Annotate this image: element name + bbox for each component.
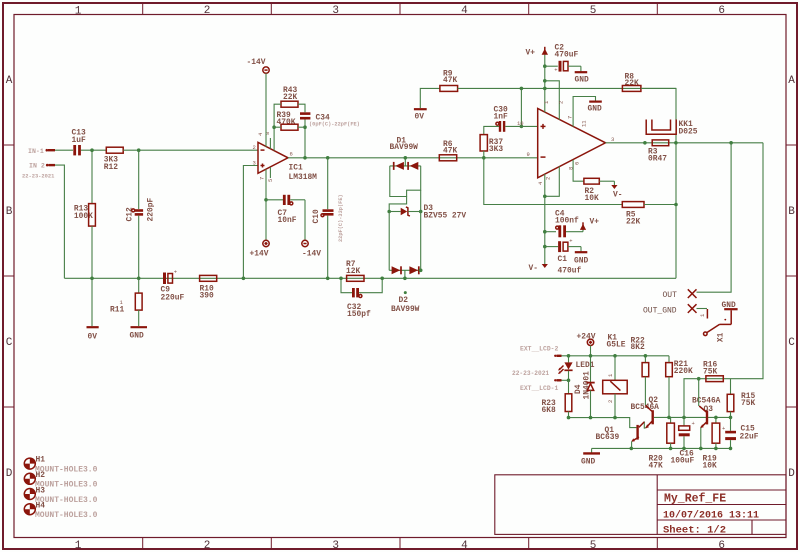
- svg-text:2: 2: [204, 540, 211, 552]
- svg-text:100nf: 100nf: [555, 216, 579, 225]
- frame column numbers bottom: [75, 540, 725, 552]
- frame row tick right B/C: [786, 275, 797, 277]
- svg-text:0V: 0V: [88, 333, 98, 342]
- frame column numbers top: [75, 5, 725, 18]
- node junction pin2 jog: [543, 79, 547, 83]
- pin IN 2: [29, 163, 55, 170]
- mount hole H1: [24, 456, 97, 475]
- wire D3 right leg: [420, 190, 422, 211]
- svg-text:8K2: 8K2: [631, 343, 645, 352]
- svg-text:9: 9: [527, 151, 530, 158]
- svg-text:3: 3: [332, 540, 339, 552]
- svg-text:2: 2: [204, 5, 211, 17]
- frame column tick top 3/4: [399, 3, 401, 15]
- ground GND X1: [722, 301, 738, 325]
- resistor R23 6K8: [542, 380, 572, 417]
- capacitor C7 10nF: [266, 195, 305, 225]
- wire feedback line R5: [484, 158, 623, 205]
- svg-text:0R47: 0R47: [648, 155, 667, 164]
- frame row tick left A/B: [3, 144, 14, 146]
- capacitor C12 220pF: [126, 150, 156, 278]
- node junction D2 right: [419, 269, 423, 273]
- svg-text:10K: 10K: [585, 194, 599, 203]
- wire R37 top to C30: [484, 126, 499, 134]
- wire C7 to -14V bottom: [304, 200, 306, 241]
- svg-text:+: +: [569, 238, 572, 245]
- wire pin4 stub bottom: [544, 174, 546, 196]
- node junction rail 24V: [589, 354, 593, 358]
- svg-text:100K: 100K: [74, 212, 93, 221]
- wire EXT LCD-1 line: [562, 379, 569, 381]
- wire Q2 emitter to Q1 collector: [644, 421, 645, 428]
- resistor R16 75K: [703, 361, 723, 382]
- node junction rail D2: [403, 277, 407, 281]
- svg-text:10/07/2016 13:11: 10/07/2016 13:11: [663, 510, 759, 522]
- op-amp U2 power amplifier: [538, 109, 606, 178]
- wire R16 line: [699, 378, 731, 380]
- svg-text:2: 2: [253, 144, 256, 151]
- node junction R39 right: [303, 125, 307, 129]
- resistor R39 470K: [277, 111, 299, 130]
- wire D1 right jog down: [407, 166, 421, 197]
- supply V- arrow bottom: [529, 264, 548, 273]
- title block outline: [495, 475, 786, 535]
- node junction output R3 left: [643, 141, 647, 145]
- resistor R9 47K: [440, 70, 458, 92]
- supply -14V top: [247, 58, 270, 73]
- frame column tick bottom 5/6: [656, 538, 658, 549]
- svg-text:5: 5: [267, 179, 274, 182]
- svg-text:My_Ref_FE: My_Ref_FE: [664, 493, 726, 506]
- node junction rail C32 left: [339, 277, 343, 281]
- node junction rail LED: [567, 354, 571, 358]
- supply -14V bottom: [302, 240, 321, 258]
- node junction C15 gnd: [729, 447, 733, 451]
- frame column tick bottom 3/4: [399, 538, 401, 549]
- svg-text:3: 3: [332, 5, 339, 17]
- node junction rail R22: [644, 354, 648, 358]
- node junction output to OUT: [729, 141, 733, 145]
- svg-text:5: 5: [590, 540, 597, 552]
- ground GND C2: [575, 66, 589, 84]
- resistor R43 22K: [281, 86, 298, 107]
- svg-text:MOUNT-HOLE3.0: MOUNT-HOLE3.0: [35, 511, 98, 520]
- svg-text:V+: V+: [526, 49, 536, 58]
- capacitor C30 1nF: [494, 106, 538, 132]
- svg-text:7: 7: [567, 116, 574, 119]
- resistor R37 3K3: [480, 135, 503, 158]
- svg-text:22uF: 22uF: [740, 432, 759, 441]
- wire -14V to IC1 pin4: [265, 73, 267, 147]
- capacitor C16 100uF: [671, 417, 695, 465]
- diode D2 BAV99W: [389, 266, 422, 314]
- node junction V- line: [543, 195, 547, 199]
- svg-text:+: +: [554, 67, 557, 74]
- supply +14V: [250, 240, 270, 258]
- svg-text:H1: H1: [36, 456, 46, 465]
- ground GND shutdown pin: [573, 97, 602, 127]
- wire Q3 collector up: [698, 379, 700, 406]
- wire Q2 base line: [654, 416, 731, 418]
- svg-text:LED1: LED1: [576, 361, 595, 370]
- svg-text:EXT__LCD-2: EXT__LCD-2: [520, 346, 559, 353]
- wire C13 to R12: [81, 149, 106, 151]
- capacitor C10: [312, 158, 334, 278]
- wire IC1 output: [288, 157, 538, 159]
- svg-text:+: +: [692, 420, 695, 427]
- svg-text:470K: 470K: [277, 118, 296, 127]
- svg-text:390: 390: [200, 292, 214, 301]
- svg-text:4: 4: [461, 540, 468, 552]
- capacitor C9 220uF electrolytic: [161, 269, 185, 303]
- wire R39 right stub: [298, 126, 305, 128]
- op-amp IC1 LM318M: [258, 142, 317, 182]
- capacitor C34: [300, 114, 330, 123]
- svg-text:EXT__LCD-1: EXT__LCD-1: [520, 385, 559, 392]
- svg-text:5: 5: [590, 5, 597, 17]
- node junction R39 left: [272, 125, 276, 129]
- svg-text:H4: H4: [36, 502, 46, 511]
- svg-text:150pf: 150pf: [347, 310, 371, 319]
- frame row letters left: [6, 75, 13, 480]
- ground GND C1: [574, 247, 588, 266]
- svg-text:47K: 47K: [649, 461, 663, 470]
- node junction C16 top: [682, 416, 686, 420]
- pin 5 IC1 stub bottom: [267, 167, 274, 182]
- svg-text:22pF(C)-33p(FE): 22pF(C)-33p(FE): [338, 194, 344, 242]
- jumper X1: [699, 309, 731, 342]
- wire down to pin10 line: [520, 88, 522, 126]
- node junction D3 right: [419, 210, 423, 214]
- svg-text:BZV55 27V: BZV55 27V: [424, 211, 467, 220]
- wire D3 left to D2 left: [388, 212, 390, 271]
- svg-text:4: 4: [461, 5, 468, 17]
- svg-text:220uF: 220uF: [161, 293, 185, 302]
- svg-text:Q3: Q3: [704, 405, 714, 414]
- frame row tick left B/C: [3, 275, 14, 277]
- resistor R22 8K2: [631, 336, 649, 405]
- node junction output C10: [326, 156, 330, 160]
- pin OUT: [663, 289, 697, 300]
- svg-text:10: 10: [517, 120, 524, 127]
- supply 0V mid: [414, 88, 440, 121]
- resistor R21 220K: [666, 356, 693, 418]
- svg-text:V-: V-: [613, 191, 622, 200]
- resistor R20 47K: [649, 417, 675, 470]
- wire GND rail bottom: [592, 447, 731, 449]
- node junction D3 left: [387, 210, 391, 214]
- svg-text:C: C: [788, 337, 795, 349]
- node junction output C34: [303, 156, 307, 160]
- ground rail bottom left: [64, 277, 676, 279]
- svg-text:6: 6: [573, 162, 580, 165]
- pin EXT__LCD-2: [520, 346, 562, 357]
- svg-text:1uF: 1uF: [72, 136, 86, 145]
- LED LED1: [558, 356, 595, 381]
- svg-text:22-23-2021: 22-23-2021: [512, 370, 549, 377]
- supply +24V: [577, 332, 596, 356]
- svg-text:6: 6: [718, 540, 725, 552]
- transistor Q2 BC546A: [631, 396, 660, 428]
- svg-text:-14V: -14V: [247, 58, 266, 67]
- svg-text:0V: 0V: [415, 113, 425, 122]
- wire output to sense divider: [731, 143, 764, 379]
- wire pin1 stub: [544, 88, 546, 112]
- node junction Q1 emitter: [630, 447, 634, 451]
- svg-text:2: 2: [544, 177, 551, 180]
- wire R39 left stub: [274, 126, 281, 128]
- svg-text:BC546A: BC546A: [631, 403, 660, 412]
- svg-text:GND: GND: [130, 332, 144, 341]
- node junction rail C10: [326, 277, 330, 281]
- wire D1 center tap: [404, 158, 406, 166]
- frame row tick left C/D: [3, 406, 14, 408]
- wire output down to OUT: [697, 143, 732, 292]
- svg-text:X1: X1: [716, 332, 725, 342]
- wire pin2b stub bottom: [545, 167, 560, 197]
- node junction R5 feedback: [674, 203, 678, 207]
- node junction R21 R20: [667, 416, 671, 420]
- node junction rail D4 bottom: [589, 416, 593, 420]
- svg-text:2: 2: [557, 101, 564, 104]
- svg-text:3: 3: [253, 160, 256, 167]
- resistor R5 22K: [622, 202, 676, 227]
- svg-text:R12: R12: [104, 163, 118, 172]
- svg-text:GND: GND: [574, 257, 588, 266]
- svg-text:2: 2: [607, 400, 614, 403]
- svg-text:470uf: 470uf: [558, 267, 582, 276]
- svg-text:220K: 220K: [674, 367, 693, 376]
- resistor R8 22K: [622, 72, 641, 91]
- node junction C4 tap: [543, 230, 547, 234]
- wire feedback right through C34: [298, 104, 305, 158]
- node junction output D1: [404, 156, 408, 160]
- zener diode D3 BZV55 27V: [389, 204, 466, 221]
- node junction rail R23 bottom: [567, 416, 571, 420]
- node junction LED R23: [567, 379, 571, 383]
- svg-text:22K: 22K: [625, 79, 639, 88]
- svg-text:22-23-2021: 22-23-2021: [22, 173, 54, 179]
- wire feedback left: [274, 104, 281, 150]
- node junction rail relay pin2: [613, 416, 617, 420]
- svg-text:1: 1: [75, 6, 82, 18]
- svg-text:12K: 12K: [346, 267, 360, 276]
- svg-text:470uF: 470uF: [555, 51, 579, 60]
- svg-text:IN 2: IN 2: [29, 163, 45, 170]
- svg-text:47K: 47K: [443, 76, 457, 85]
- svg-text:OUT: OUT: [663, 291, 678, 300]
- svg-text:6K8: 6K8: [542, 406, 556, 415]
- wire R9 to V+ rail: [458, 87, 676, 89]
- node junction C1 tap: [543, 245, 547, 249]
- svg-text:IC1: IC1: [289, 164, 303, 173]
- wire relay bottom rail: [569, 418, 637, 428]
- pin EXT__LCD-1: [520, 379, 562, 392]
- svg-text:(0pF(C)-22pF(FE): (0pF(C)-22pF(FE): [309, 122, 360, 128]
- resistor R2 10K: [573, 160, 614, 203]
- wire pin2 stub: [545, 81, 560, 120]
- node junction rail relay pin1: [613, 354, 617, 358]
- mount hole H4: [24, 502, 97, 521]
- svg-text:BAV99W: BAV99W: [391, 305, 420, 314]
- node junction rail pin1: [543, 87, 547, 91]
- node junction C13/R13: [90, 148, 94, 152]
- resistor R3 0R47: [648, 140, 669, 164]
- svg-text:BC639: BC639: [596, 433, 620, 442]
- svg-text:D2: D2: [399, 296, 409, 305]
- ground GND relay: [581, 448, 600, 466]
- frame column tick top 2/3: [270, 3, 272, 15]
- wire D1 left jog down: [389, 166, 406, 212]
- node junction rail R13: [90, 277, 94, 281]
- svg-text:D: D: [6, 468, 13, 480]
- svg-text:8: 8: [264, 132, 271, 135]
- supply V+ arrow C4: [580, 218, 599, 232]
- svg-text:100uF: 100uF: [671, 457, 695, 466]
- capacitor C1 470uf: [545, 238, 582, 276]
- svg-text:G5LE: G5LE: [607, 340, 626, 349]
- resistor R15 75K: [727, 379, 755, 418]
- svg-text:220pF: 220pF: [147, 198, 156, 222]
- transistor Q1 BC639: [596, 422, 645, 449]
- svg-text:6: 6: [290, 151, 293, 158]
- node junction pin10: [520, 125, 524, 129]
- svg-text:BAV99W: BAV99W: [390, 143, 419, 152]
- wire IN 2 down to ground rail: [55, 165, 64, 278]
- node junction Q3 emitter gnd: [699, 447, 703, 451]
- mount hole H2: [24, 471, 97, 490]
- frame row letters right: [788, 75, 795, 480]
- wire OUT_GND stub: [697, 308, 708, 310]
- svg-text:R11: R11: [110, 306, 124, 315]
- svg-text:D: D: [788, 468, 795, 480]
- svg-text:10nF: 10nF: [278, 216, 297, 225]
- diode D4 1N4001: [574, 356, 595, 418]
- svg-text:C1: C1: [558, 255, 568, 264]
- svg-text:-14V: -14V: [302, 250, 321, 259]
- pin number 8 IC1 stub: [264, 132, 271, 149]
- node junction C7 left: [264, 198, 268, 202]
- svg-text:Sheet: 1/2: Sheet: 1/2: [663, 525, 726, 537]
- wire V- vertical: [544, 196, 546, 264]
- capacitor C13: [72, 129, 86, 156]
- node junction C2 tap: [543, 64, 547, 68]
- resistor R7 12K: [346, 260, 364, 281]
- frame row tick right C/D: [786, 406, 797, 408]
- svg-text:11: 11: [581, 120, 588, 127]
- svg-text:3K3: 3K3: [489, 145, 503, 154]
- node junction C16 gnd: [682, 447, 686, 451]
- wire IC1 pin7 to +14V: [265, 169, 267, 240]
- resistor R13 100K: [74, 150, 96, 278]
- wire R12 to IC1 inverting input: [123, 149, 258, 151]
- svg-text:GND: GND: [575, 76, 589, 85]
- svg-text:H3: H3: [36, 486, 46, 495]
- svg-text:+: +: [722, 425, 725, 432]
- wire R16 left drop to base line: [684, 379, 699, 418]
- frame column tick bottom 1/2: [142, 538, 144, 549]
- supply V+ arrow top: [526, 47, 549, 89]
- svg-text:OUT_GND: OUT_GND: [643, 307, 677, 316]
- svg-text:6: 6: [718, 5, 725, 17]
- frame column tick top 1/2: [142, 3, 144, 15]
- svg-text:IN-1: IN-1: [28, 148, 44, 155]
- svg-text:C10: C10: [312, 209, 321, 223]
- resistor R19 10K: [703, 417, 720, 470]
- node junction R3 right: [674, 141, 678, 145]
- wire output to R3: [606, 142, 764, 144]
- svg-text:A: A: [788, 75, 795, 87]
- node junction R37 bottom: [482, 156, 486, 160]
- heatsink KK1 D025: [646, 120, 698, 137]
- svg-text:A: A: [6, 75, 13, 87]
- pin OUT_GND: [643, 304, 697, 315]
- svg-text:1: 1: [75, 540, 82, 552]
- capacitor C4 100nf: [545, 209, 583, 237]
- node junction R9 line down: [520, 87, 524, 91]
- svg-text:V-: V-: [529, 264, 538, 273]
- node junction rail IC1 plus input: [242, 277, 246, 281]
- svg-text:3: 3: [611, 136, 614, 143]
- frame column tick top 5/6: [656, 3, 658, 15]
- node junction R19 gnd: [714, 447, 718, 451]
- svg-text:22K: 22K: [626, 218, 640, 227]
- relay K1 G5LE: [603, 334, 628, 418]
- svg-text:7: 7: [259, 177, 266, 180]
- capacitor C32 150pf: [341, 278, 382, 319]
- svg-text:D025: D025: [679, 128, 698, 137]
- resistor R12 3K3: [104, 147, 123, 172]
- resistor R6 47K: [439, 140, 457, 161]
- transistor Q3 BC546A: [692, 397, 721, 449]
- svg-text:GND: GND: [581, 457, 595, 466]
- frame row tick right A/B: [786, 144, 797, 146]
- node junction rail C32 right: [380, 277, 384, 281]
- diode D1 BAV99W: [390, 136, 421, 170]
- node junction R12/C12: [137, 148, 141, 152]
- svg-text:1nF: 1nF: [494, 112, 508, 121]
- pin IN-1: [28, 148, 55, 155]
- frame column tick bottom 2/3: [270, 538, 272, 549]
- wire IC1 plus input: [243, 166, 258, 279]
- node junction R19 top: [714, 416, 718, 420]
- resistor R10 390: [200, 275, 217, 300]
- node junction rail C12/R11: [137, 277, 141, 281]
- wire D2 center tap to rail: [404, 270, 406, 278]
- svg-text:10K: 10K: [703, 461, 717, 470]
- capacitor C15 22uF: [722, 417, 759, 448]
- svg-text:H2: H2: [36, 471, 46, 480]
- node junction R20 gnd: [669, 447, 673, 451]
- wire D3 right to D2 right: [420, 212, 422, 271]
- svg-text:B: B: [6, 206, 13, 218]
- svg-text:V+: V+: [590, 218, 600, 227]
- svg-text:B: B: [788, 206, 795, 218]
- node junction C15 top: [729, 416, 733, 420]
- supply V- arrow R2: [611, 181, 622, 199]
- wire relay top rail: [562, 355, 670, 357]
- frame column tick top 4/5: [528, 3, 530, 15]
- resistor R11: [110, 278, 142, 326]
- wire R8 right to KK1 vertical: [641, 88, 676, 278]
- mount hole H3: [24, 486, 97, 505]
- svg-text:C: C: [6, 337, 13, 349]
- svg-text:+14V: +14V: [250, 250, 269, 259]
- frame column tick bottom 4/5: [528, 538, 530, 549]
- pin digits bottom rotated: [537, 162, 581, 185]
- node D2 origin dot: [404, 291, 407, 294]
- capacitor C2 470uF: [545, 44, 581, 74]
